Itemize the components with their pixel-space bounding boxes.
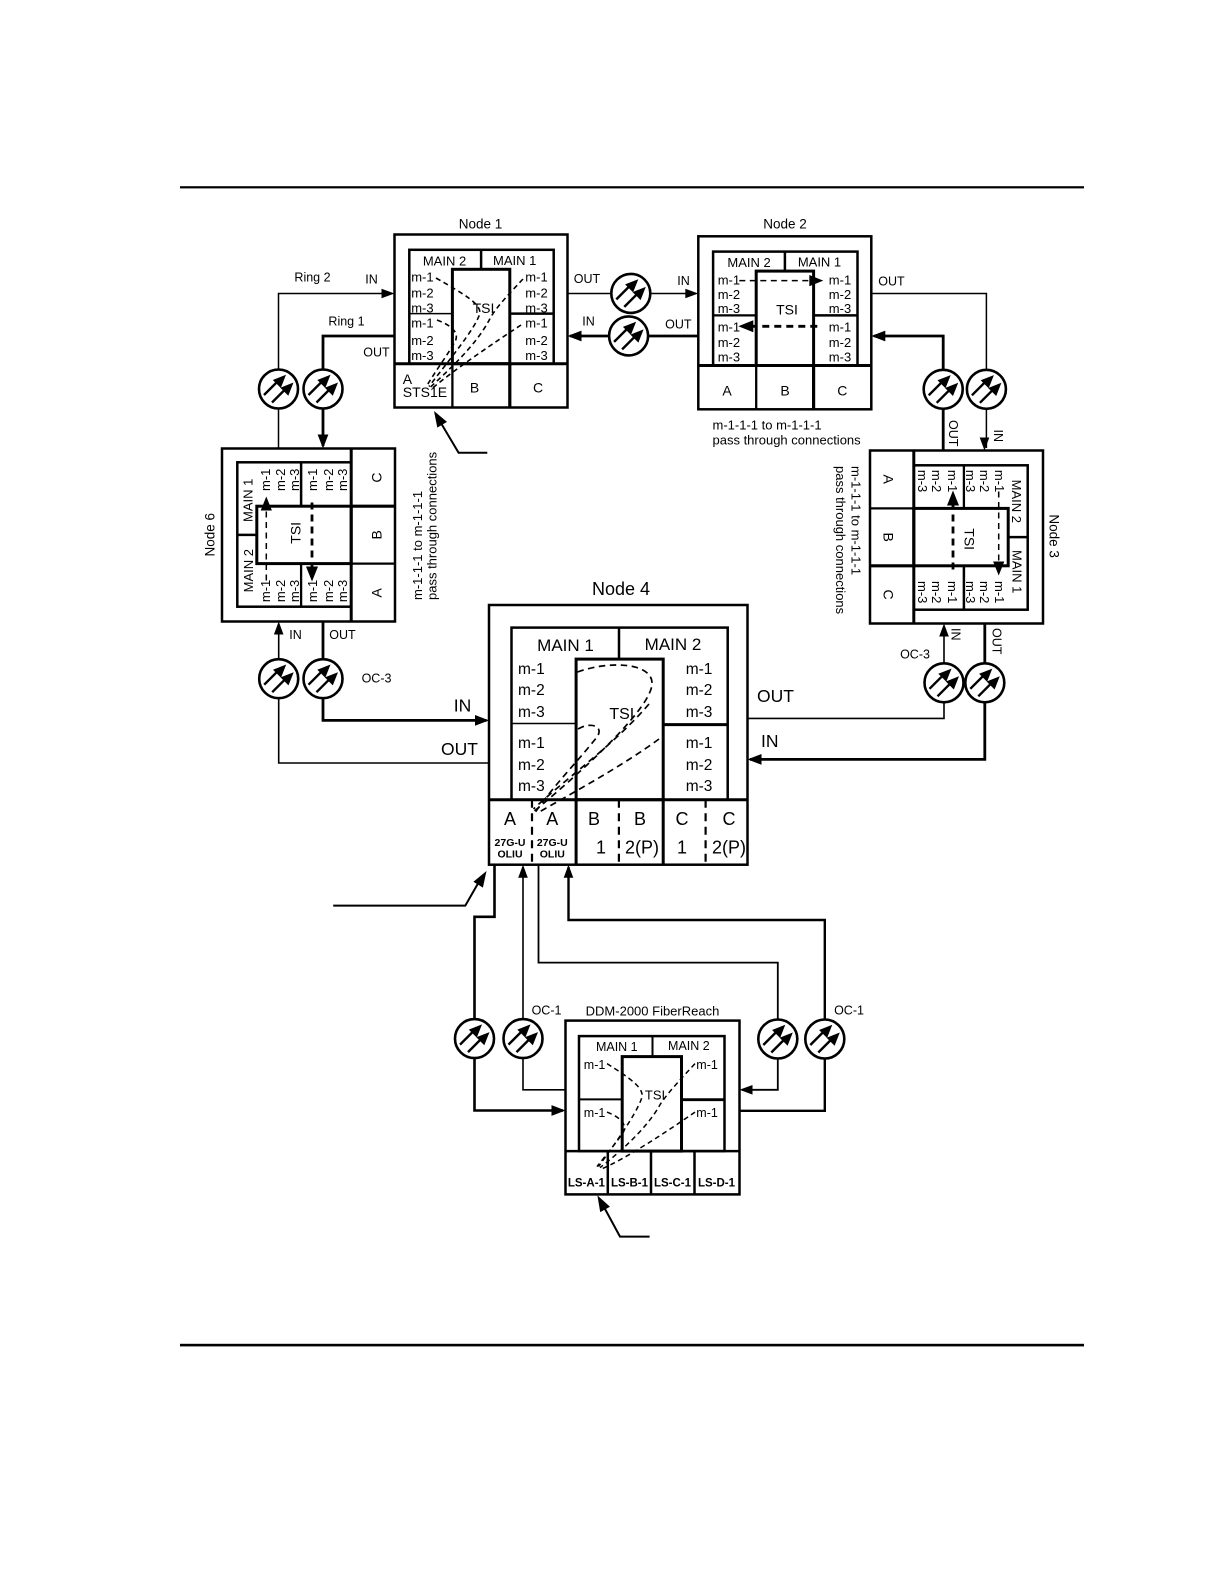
arrowhead into DDM right [740,1085,753,1095]
arrowhead into Node6 bottom IN [274,622,284,635]
wire DDM right -> Node4 A2 [569,867,825,1111]
svg-text:IN: IN [677,274,690,288]
optical coupler O1 ring2 [259,370,298,409]
svg-text:Ring 1: Ring 1 [328,315,364,329]
svg-text:m-1: m-1 [696,1106,718,1120]
svg-text:m-1: m-1 [945,470,960,492]
svg-text:A: A [504,809,516,829]
svg-text:m-1-1-1 to m-1-1-1: m-1-1-1 to m-1-1-1 [848,466,863,575]
svg-text:m-2: m-2 [518,757,545,774]
svg-text:m-1: m-1 [525,316,547,331]
node Node6 (rotated CCW) [222,449,395,622]
svg-text:TSI: TSI [287,522,303,544]
svg-text:OUT: OUT [757,686,794,706]
arrowhead into Node6 top [318,435,329,449]
optical coupler O4 [609,316,648,355]
svg-text:DDM-2000 FiberReach: DDM-2000 FiberReach [586,1004,720,1019]
svg-text:Ring 2: Ring 2 [294,271,330,285]
svg-text:OUT: OUT [441,739,478,759]
svg-text:m-1: m-1 [518,735,545,752]
svg-text:m-1: m-1 [829,273,851,288]
svg-text:m-2: m-2 [518,682,545,699]
arrowhead into Node2 left IN [685,289,698,299]
svg-text:m-2: m-2 [977,470,992,492]
wire Node2->Node1 [570,335,698,338]
svg-text:OUT: OUT [329,628,356,642]
svg-text:m-3: m-3 [915,470,930,492]
svg-text:MAIN 1: MAIN 1 [596,1040,638,1054]
callout to Node1 A/STS1E [438,417,488,453]
svg-text:m-3: m-3 [718,350,740,365]
wire Node4 A1 -> DDM left [475,865,564,1111]
arrowhead into DDM left [552,1105,566,1116]
svg-text:m-1: m-1 [305,469,320,491]
svg-text:MAIN 2: MAIN 2 [727,255,770,270]
svg-text:C: C [881,589,897,599]
svg-text:A: A [722,383,732,399]
arrowhead into Node2 right IN [871,331,885,342]
svg-text:B: B [588,809,600,829]
svg-text:LS-A-1: LS-A-1 [568,1178,606,1190]
svg-text:A: A [368,587,384,597]
svg-text:m-1: m-1 [584,1106,606,1120]
wire Node4 A2 -> DDM right [539,865,778,1090]
svg-text:A: A [881,475,897,485]
svg-text:m-3: m-3 [686,704,713,721]
svg-text:m-1: m-1 [411,270,433,285]
svg-text:m-1: m-1 [992,581,1007,603]
svg-text:OUT: OUT [990,628,1004,655]
svg-text:OUT: OUT [363,346,390,360]
svg-text:m-1-1-1 to m-1-1-1: m-1-1-1 to m-1-1-1 [410,491,425,600]
svg-text:B: B [634,809,646,829]
optical coupler O11 [455,1019,494,1058]
svg-text:m-3: m-3 [411,300,433,315]
svg-text:m-2: m-2 [686,682,713,699]
svg-text:m-2: m-2 [829,287,851,302]
svg-text:B: B [368,530,384,539]
svg-text:IN: IN [949,628,963,641]
svg-text:TSI: TSI [473,300,495,316]
svg-text:m-2: m-2 [273,580,288,602]
svg-text:LS-C-1: LS-C-1 [654,1178,692,1190]
svg-text:m-1: m-1 [718,320,740,335]
svg-text:m-1: m-1 [718,273,740,288]
arrowhead into Node1 left IN [382,289,395,299]
svg-text:m-3: m-3 [335,580,350,602]
wire Node1->Node2 [568,293,697,295]
optical coupler O12 OC-1 [504,1019,543,1058]
arrowhead into Node4 right IN [748,754,762,765]
optical coupler O14 OC-1 [805,1020,844,1059]
svg-text:m-1: m-1 [945,581,960,603]
svg-text:OLIU: OLIU [540,849,565,861]
svg-text:B: B [780,383,789,399]
wire Node2->Node3 [871,294,986,449]
svg-text:m-1: m-1 [992,470,1007,492]
svg-text:IN: IN [289,628,302,642]
svg-text:m-1: m-1 [305,580,320,602]
optical coupler O6 [967,370,1006,409]
svg-text:pass through connections: pass through connections [833,466,848,615]
svg-text:m-3: m-3 [518,778,545,795]
wire Ring1 Node1->Node6 [323,336,395,446]
svg-text:Node 1: Node 1 [459,217,503,232]
svg-text:MAIN 2: MAIN 2 [423,254,466,269]
wire Ring2 Node6->Node1 [279,294,393,449]
svg-text:LS-B-1: LS-B-1 [611,1178,649,1190]
optical coupler O10 [965,663,1004,702]
svg-text:m-3: m-3 [829,301,851,316]
svg-text:m-2: m-2 [929,581,944,603]
svg-text:m-3: m-3 [829,350,851,365]
svg-text:m-1: m-1 [518,661,545,678]
svg-text:A: A [546,809,558,829]
svg-text:IN: IN [582,315,595,329]
svg-text:OLIU: OLIU [497,849,522,861]
svg-text:2(P): 2(P) [712,838,746,858]
callout to Node4 A 27G-U OLIU [333,877,482,906]
node Node4 [489,605,748,865]
svg-text:m-3: m-3 [411,348,433,363]
svg-text:OUT: OUT [574,272,601,286]
bottom rule [180,1344,1084,1347]
svg-text:m-1: m-1 [258,469,273,491]
svg-text:m-1: m-1 [584,1058,606,1072]
optical coupler O3 [611,274,650,313]
svg-text:m-2: m-2 [718,335,740,350]
svg-text:m-2: m-2 [686,757,713,774]
svg-text:B: B [470,380,479,396]
svg-text:27G-U: 27G-U [495,837,526,849]
svg-text:IN: IN [761,731,779,751]
svg-text:m-1: m-1 [696,1058,718,1072]
svg-text:MAIN 1: MAIN 1 [798,255,841,270]
svg-text:IN: IN [365,273,378,287]
svg-text:m-3: m-3 [287,580,302,602]
svg-text:m-2: m-2 [321,580,336,602]
svg-text:OUT: OUT [946,420,960,447]
svg-text:MAIN 2: MAIN 2 [645,635,702,654]
svg-text:1: 1 [677,838,687,858]
optical coupler O9 OC-3 [925,663,964,702]
wire Node3->Node2 [874,336,943,451]
svg-text:m-3: m-3 [915,581,930,603]
svg-text:C: C [368,472,384,482]
svg-text:m-1-1-1 to m-1-1-1: m-1-1-1 to m-1-1-1 [713,418,822,433]
svg-text:LS-D-1: LS-D-1 [698,1178,736,1190]
svg-text:m-2: m-2 [929,470,944,492]
optical coupler O7 [259,659,298,698]
svg-text:OC-1: OC-1 [834,1004,864,1018]
svg-text:OUT: OUT [878,275,905,289]
arrowhead into Node3 top IN [980,438,990,451]
svg-text:MAIN 1: MAIN 1 [240,479,255,522]
svg-text:MAIN 2: MAIN 2 [241,549,256,592]
svg-text:m-1: m-1 [829,320,851,335]
svg-text:MAIN 2: MAIN 2 [668,1039,710,1053]
arrowhead into Node3 bottom IN [939,624,949,637]
svg-text:MAIN 1: MAIN 1 [537,636,594,655]
svg-text:m-2: m-2 [321,469,336,491]
optical coupler O13 [758,1020,797,1059]
svg-text:m-3: m-3 [525,300,547,315]
svg-text:m-2: m-2 [718,287,740,302]
svg-text:m-2: m-2 [273,469,288,491]
svg-text:m-3: m-3 [525,348,547,363]
svg-text:m-3: m-3 [963,581,978,603]
arrowhead into Node4 A2 [564,865,574,878]
arrowhead into Node1 right IN [568,331,582,342]
svg-text:m-3: m-3 [686,778,713,795]
svg-text:m-2: m-2 [525,333,547,348]
optical coupler O5 [924,370,963,409]
top rule [180,186,1084,188]
svg-text:OC-3: OC-3 [362,672,392,686]
svg-text:IN: IN [454,696,472,716]
svg-text:m-3: m-3 [718,301,740,316]
svg-text:m-2: m-2 [829,335,851,350]
svg-text:m-3: m-3 [335,469,350,491]
optical coupler O2 ring1 [304,370,343,409]
arrowhead into Node4 A1 [518,865,528,878]
svg-text:Node 2: Node 2 [763,217,807,232]
node Node2 [698,236,871,409]
svg-text:m-1: m-1 [686,735,713,752]
arrowhead into Node4 left IN [475,715,489,726]
svg-text:27G-U: 27G-U [537,837,568,849]
svg-text:TSI: TSI [962,528,978,550]
svg-text:C: C [533,380,543,396]
svg-text:STS1E: STS1E [403,384,447,400]
svg-text:m-1: m-1 [411,316,433,331]
wire Node4->Node3 [748,626,945,718]
wire DDM left -> Node4 A1 [523,867,566,1090]
svg-text:MAIN 1: MAIN 1 [1010,550,1025,593]
svg-text:m-2: m-2 [525,285,547,300]
svg-text:C: C [837,383,847,399]
svg-text:IN: IN [991,430,1005,443]
svg-text:OC-3: OC-3 [900,648,930,662]
svg-text:m-3: m-3 [963,470,978,492]
svg-text:Node 4: Node 4 [592,579,650,599]
svg-text:Node 6: Node 6 [203,513,218,557]
wire Node4->Node6 [279,624,489,763]
svg-text:OUT: OUT [665,318,692,332]
wire Node3->Node4 [750,624,985,760]
svg-text:m-3: m-3 [518,704,545,721]
svg-text:m-2: m-2 [977,581,992,603]
svg-text:B: B [881,533,897,542]
svg-text:m-1: m-1 [686,661,713,678]
svg-text:TSI: TSI [645,1088,665,1103]
svg-text:MAIN 1: MAIN 1 [493,253,536,268]
svg-text:TSI: TSI [776,302,798,318]
svg-text:pass through connections: pass through connections [713,432,862,447]
callout to DDM LS-A-1 [602,1203,650,1237]
svg-text:m-2: m-2 [411,333,433,348]
svg-text:C: C [723,809,736,829]
optical coupler O8 [304,659,343,698]
svg-text:m-3: m-3 [287,469,302,491]
svg-text:1: 1 [596,838,606,858]
node DDM-2000 FiberReach [566,1021,740,1195]
svg-text:m-2: m-2 [411,285,433,300]
svg-text:C: C [676,809,689,829]
node Node3 (rotated CW) [870,451,1043,624]
svg-text:pass through connections: pass through connections [425,451,440,600]
svg-text:OC-1: OC-1 [532,1004,562,1018]
svg-text:2(P): 2(P) [625,838,659,858]
svg-text:m-1: m-1 [258,580,273,602]
wire Node6->Node4 [323,622,487,721]
node Node1 [395,235,568,408]
svg-text:MAIN 2: MAIN 2 [1009,480,1024,523]
svg-text:m-1: m-1 [525,270,547,285]
svg-text:Node 3: Node 3 [1047,514,1062,558]
